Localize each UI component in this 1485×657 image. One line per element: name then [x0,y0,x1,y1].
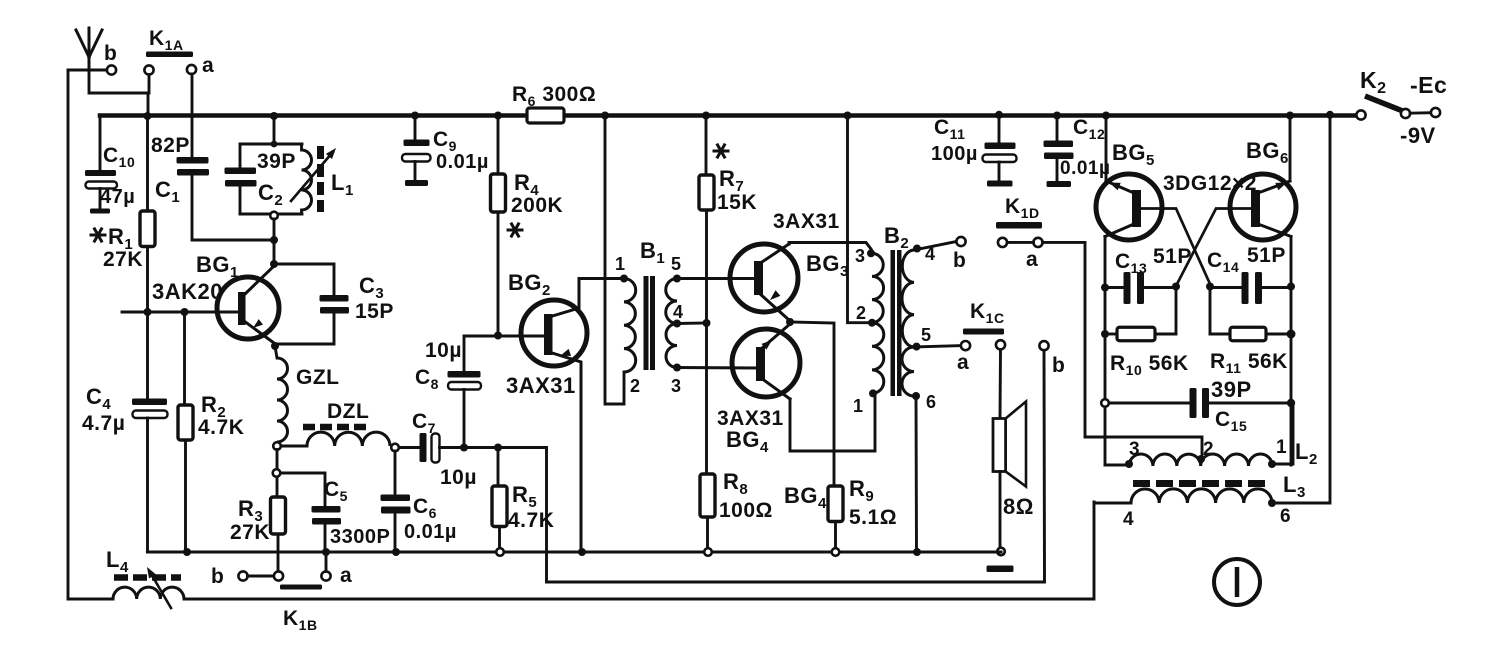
node emitters BG3/BG4 [786,318,794,326]
svg-text:2: 2 [856,303,867,323]
wire K2 link [1410,111,1431,114]
BG1 emitter lead [244,321,274,343]
wire GZL to R3 [276,450,279,470]
capacitor C10 47u [85,170,116,176]
svg-text:47µ: 47µ [100,186,135,208]
switch K2 blade [1365,96,1404,112]
wire tank top bar [240,143,302,146]
svg-text:6: 6 [1280,506,1291,527]
transformer B1 primary [624,279,636,373]
wire C6 bottom [394,514,397,553]
capacitor C8 10u [463,336,466,371]
svg-text:a: a [202,54,214,77]
node R11 right [1287,330,1296,339]
svg-text:b: b [104,42,117,65]
node R4R5/feedback [494,444,502,452]
svg-text:5.1Ω: 5.1Ω [849,506,897,529]
arrow L4 tuning [150,572,171,608]
wire feedback line [547,581,1045,584]
wire DZL to C7 [399,446,420,449]
svg-text:3: 3 [671,376,682,396]
terminal b of K1D side [956,237,965,246]
node B2 pin5 [913,343,921,351]
node rail/L3 [1326,111,1334,119]
wire BG4 collector to B2 pin1 [790,396,875,451]
transformer B2 secondary upper [902,250,914,347]
core of L1 [317,146,324,212]
transformer B2 primary upper [872,253,884,322]
asterisk R4 [507,229,524,232]
wire B2 pin5 to K1C a [914,346,961,347]
node L2 pin2 [1197,455,1205,463]
svg-text:3AK20: 3AK20 [152,279,223,304]
BG6 collector lead bottom [1258,224,1291,237]
wire K1A pole stem [148,75,151,93]
svg-text:15P: 15P [355,300,394,323]
wire rail to tank top [273,116,276,144]
node L2 pin3 [1125,460,1133,468]
inductor L2 [1129,454,1272,466]
wire B2 pin4 to terminal b [914,242,957,251]
wire L2 pin1 up [1272,403,1293,464]
svg-text:39P: 39P [257,150,296,173]
ground symbol [987,566,1014,573]
inductor L3 [1131,489,1272,503]
switch K1D bar [996,222,1042,229]
svg-text:0.01µ: 0.01µ [404,521,457,543]
resistor R6 300 [527,108,564,123]
node GZL bottom [273,442,281,450]
node C15 left [1101,399,1109,407]
BG5 emitter lead top [1106,181,1134,193]
node rail/C12 [1053,112,1061,120]
terminal a1 of K1D [998,238,1007,247]
node C7/C8 [460,444,468,452]
capacitor C15 39P [1110,402,1190,405]
svg-text:82P: 82P [151,134,190,157]
resistor R5 4.7K [497,448,500,487]
svg-text:2: 2 [630,376,641,396]
svg-text:100Ω: 100Ω [719,499,773,522]
arrow L1 tuning [291,153,332,201]
resistor R1 27K [146,116,149,211]
node B1 pin3 [673,364,681,372]
svg-text:3: 3 [855,246,866,266]
wire B1 pin5 to BG3 base [677,277,755,280]
capacitor C6 0.01u [381,495,411,502]
wire ground rail [148,550,1002,553]
capacitor C2 left branch [239,144,242,168]
svg-text:b: b [211,565,224,588]
wire base BG1 [122,311,239,314]
svg-text:-Ec: -Ec [1410,72,1447,98]
wire BG2 base [464,335,545,338]
node tank top [271,141,278,148]
inductor GZL [275,346,277,358]
node B2 pin1 [869,389,877,397]
svg-text:R11 56K: R11 56K [1210,350,1288,376]
capacitor C4 4.7u [132,399,167,406]
wire GZL to DZL [281,445,307,448]
transformer B2 secondary lower [902,347,914,396]
wire C1 bottom to tank node [192,176,274,241]
antenna [88,28,91,71]
node C14 right [1287,283,1295,291]
node B2 pin4 [913,245,921,253]
svg-text:b: b [1052,354,1065,377]
wire C6 top stem [394,451,397,494]
svg-text:3300P: 3300P [330,526,390,548]
node B1 pin5 [673,275,681,283]
resistor R2 4.7K [183,312,186,405]
node B2 pin6 [912,392,920,400]
svg-text:39P: 39P [1211,377,1252,402]
node C13 right [1172,283,1180,291]
transistor BG2 3AX31 [521,300,587,366]
wire K1D link [1007,241,1033,244]
BG2 emitter lead [549,352,581,552]
inductor L4 [113,587,184,599]
core of L4 [114,574,181,581]
wire C8 node to feedback corner [464,448,547,583]
node rail/R1 [144,112,152,120]
svg-text:3AX31: 3AX31 [506,373,576,398]
svg-text:a: a [957,351,969,374]
svg-text:4: 4 [1123,509,1134,530]
wire K1B a stem [325,552,328,571]
node B1 pin4 [673,320,681,328]
terminal K2 mid [1401,109,1410,118]
wire tank bottom down [273,219,276,264]
node R2/ground [183,548,191,556]
BG4 collector lead [761,378,790,399]
svg-text:51P: 51P [1247,244,1286,267]
node rail/R4 [494,112,502,120]
wire BG3 collector to B2 pin3 [789,243,871,250]
wire emitters to R9 [790,322,834,486]
wire C10 branch from rail [99,116,102,169]
svg-text:27K: 27K [230,521,270,544]
BG6 emitter lead top [1258,181,1290,193]
svg-text:10µ: 10µ [425,339,462,362]
terminal R5/ground [496,548,504,556]
terminal b of K1A [107,65,116,74]
node C15 right [1287,399,1295,407]
wire rail to BG5 top [1105,116,1108,182]
asterisk R7 [713,150,730,153]
BG5 base lead [1141,209,1210,285]
wire K1D to L2 pin2 [1043,242,1202,457]
wire C4 branch [146,312,149,398]
node rail/BG6 [1286,112,1294,120]
node collector BG1 [270,260,278,268]
node R4/BG2 base [494,332,502,340]
svg-text:-9V: -9V [1400,123,1436,148]
node tank/C1 [270,236,278,244]
svg-text:1: 1 [1276,437,1287,458]
node L2 pin1 [1268,460,1276,468]
core of DZL [303,424,368,431]
node R10 left [1101,330,1109,338]
svg-text:4.7K: 4.7K [508,509,554,532]
node BG2e/ground [578,548,586,556]
node R7/B1 pin4 [703,319,711,327]
capacitor C13 51P [1105,286,1124,289]
capacitor C9 0.01u [414,116,417,140]
svg-text:R10 56K: R10 56K [1110,352,1189,378]
node rail/tank [270,112,278,120]
wire B2 pin6 to ground [915,396,918,552]
terminal b of K1B [238,571,247,580]
svg-text:1: 1 [853,396,864,416]
svg-text:GZL: GZL [296,366,340,389]
svg-text:51P: 51P [1153,245,1192,268]
svg-text:0.01µ: 0.01µ [436,151,489,173]
wire R3 junction to C5 [281,473,326,506]
svg-text:6: 6 [926,392,937,412]
BG3 collector lead [759,244,789,264]
node rail/B1-2 [601,112,609,120]
core of B2 [891,250,896,396]
node B1 pin1 [620,275,628,283]
node emitter BG1 [271,342,279,350]
wire bottom border right of L4 [184,502,1094,599]
inductor DZL [307,432,390,446]
svg-text:100µ: 100µ [931,143,978,165]
capacitor C14 51P [1210,286,1242,289]
node rail/R7 [702,112,710,120]
wire B1 pin3 to BG4 base [677,366,757,369]
capacitor C7 10u [420,433,427,462]
terminal R9/ground [832,548,840,556]
svg-text:200K: 200K [511,194,563,217]
node DZL right [391,444,399,452]
svg-text:1: 1 [615,254,626,274]
terminal rail end K2 [1356,110,1365,119]
wire K1C b to feedback line [1043,350,1046,582]
capacitor C11 100u [998,115,1001,142]
wire rail to BG6 top [1289,116,1292,182]
wire left border [68,70,113,599]
node rail/B2 tap [844,112,852,120]
resistor R7 15K [705,116,708,176]
BG5 collector lead bottom [1105,224,1134,237]
wire antenna stem down to K1A pole [89,70,148,116]
BG4 emitter lead [761,324,790,349]
terminal a2 of K1D [1033,238,1042,247]
svg-text:4: 4 [673,302,684,322]
terminal a of K1A [187,65,196,74]
switch K1B bar [280,585,322,590]
capacitor C3 15P [320,295,349,302]
inductor L1 right branch [300,144,303,150]
transformer B2 primary lower [872,323,884,394]
wire K1C pole to speaker [999,349,1002,418]
resistor R4 200K [497,116,500,175]
BG3 emitter lead [759,293,789,320]
core of B1 [644,276,649,370]
wire C1 top stem from terminal a [191,74,194,157]
resistor R8 100 [705,323,708,474]
node C5/ground [322,548,330,556]
svg-text:4.7K: 4.7K [198,416,244,439]
node B2 pin2 [868,319,876,327]
wire tank bottom bar [240,213,302,216]
BG1 collector lead [244,266,274,295]
capacitor C12 0.01u [1056,116,1059,141]
node R3 top [273,469,281,477]
resistor R11 56K [1210,333,1230,336]
terminal R8/ground [704,548,712,556]
svg-text:0.01µ: 0.01µ [1060,158,1110,179]
svg-text:10µ: 10µ [440,466,477,489]
terminal a of K1C [961,341,970,350]
transistor BG3 3AX31 [730,244,798,312]
wire K1B b to pole [248,575,274,578]
terminal pole of K1C [996,340,1005,349]
BG6 base lead [1177,209,1251,285]
wire C4 corner to ground rail [147,418,149,552]
BG2 collector lead [549,279,579,318]
svg-text:5: 5 [671,254,682,274]
terminal a of K1B [321,571,330,580]
wire rail to B2 pin2 [848,116,869,323]
svg-text:R6 300Ω: R6 300Ω [512,83,596,109]
terminal b of K1C [1039,341,1048,350]
node base/R2 [181,308,189,316]
wire C5 bottom [324,525,327,553]
capacitor C1 82P [177,157,209,164]
switch K1A bar [146,52,193,58]
core of L2 L3 [1133,480,1268,487]
node rail/BG5 [1102,112,1110,120]
switch K1C bar [963,329,1004,335]
svg-text:5: 5 [921,325,932,345]
terminal pole of K1A [144,65,153,74]
wire BG6 bottom down right column [1290,237,1293,466]
wire C3 bottom [276,314,334,345]
node base/R1 [144,308,152,316]
svg-text:3AX31: 3AX31 [773,210,840,233]
svg-text:a: a [340,564,352,587]
wire L3 pin6 up to rail [1272,116,1330,504]
wire BG5 bottom down left column [1104,237,1107,466]
resistor R10 56K [1105,333,1117,336]
svg-text:DZL: DZL [327,400,369,423]
node C13 left [1101,284,1109,292]
svg-text:8Ω: 8Ω [1003,494,1034,519]
wire top rail right of R6 [564,113,1357,118]
wire L3 pin4 to border [1094,502,1131,503]
node B2-6/ground [913,548,921,556]
resistor R3 27K [276,477,279,497]
asterisk R1 [90,234,107,237]
wire BG5 column to L2 pin3 [1105,464,1129,467]
svg-text:3: 3 [1129,439,1140,460]
transistor BG4 3AX31 [732,329,800,397]
wire top rail left of R6 [100,113,527,118]
marker circle I [1214,559,1260,605]
transistor BG5 3DG12 [1096,174,1162,240]
node B2 pin3 [867,249,875,257]
svg-text:2: 2 [1203,439,1214,460]
capacitor C5 3300P [312,506,341,513]
node rail/C9 [411,112,419,120]
node C14 left [1206,283,1214,291]
wire B1 pin2 to rail [605,116,624,405]
node rail/C11 [995,111,1003,119]
svg-text:a: a [1026,248,1038,271]
svg-text:4.7µ: 4.7µ [82,412,125,435]
terminal K2 right [1431,108,1440,117]
resistor R9 5.1 [828,486,843,522]
node C6/ground [392,548,400,556]
svg-text:15K: 15K [717,191,757,214]
wire speaker to ground [999,472,1002,548]
speaker 8 ohm [993,419,1006,472]
transformer B1 secondary [666,279,677,324]
transistor BG1 3AK20 [217,277,279,339]
svg-text:27K: 27K [103,248,143,271]
transistor BG6 3DG12 [1230,174,1296,240]
wire C3 top [274,264,334,295]
wire BG2 collector to B1 pin1 [579,277,624,280]
node tank bottom [270,212,278,220]
wire C7 to C8 node [440,446,465,449]
svg-text:b: b [953,249,966,272]
wire B1 pin4 to R7R8 [677,322,707,325]
node L3 pin6 [1268,499,1276,507]
terminal speaker/ground rail end [997,548,1005,556]
terminal pole of K1B [274,571,283,580]
wire antenna to terminal b [68,69,107,72]
